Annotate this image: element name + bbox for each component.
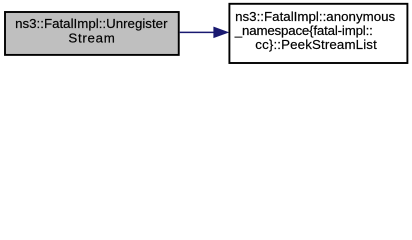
svg-text:ns3::FatalImpl::Unregister: ns3::FatalImpl::Unregister	[15, 16, 168, 31]
svg-text:Stream: Stream	[68, 30, 114, 45]
svg-text:_namespace{fatal-impl::: _namespace{fatal-impl::	[234, 23, 373, 38]
node ns3::FatalImpl::UnregisterStream (current node, grey fill)	[5, 12, 179, 55]
svg-text:cc}::PeekStreamList: cc}::PeekStreamList	[255, 37, 377, 52]
edge arrow UnregisterStream -> PeekStreamList	[180, 27, 228, 37]
node ns3::FatalImpl::anonymous_namespace{fatal-impl::cc}::PeekStreamList	[229, 4, 407, 63]
